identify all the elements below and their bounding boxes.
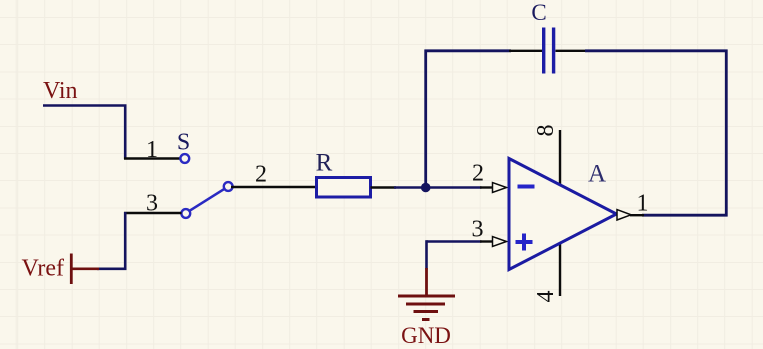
resistor R right lead bbox=[371, 186, 397, 188]
capacitor C right lead bbox=[556, 50, 588, 52]
wire node 2: switch common to resistor bbox=[231, 186, 317, 188]
op-amp output arrowhead (pin 1) bbox=[617, 210, 631, 220]
wire to switch pin 3 bbox=[124, 212, 182, 214]
wire GND vertical bbox=[425, 240, 428, 269]
wire resistor to junction bbox=[394, 186, 427, 189]
svg-text:A: A bbox=[588, 161, 606, 188]
svg-text:1: 1 bbox=[146, 137, 158, 163]
junction dot (node 2 at inverting input) bbox=[421, 183, 431, 193]
port Vref lead bbox=[71, 267, 99, 270]
op-amp pin 1 lead bbox=[630, 214, 644, 216]
wire to switch pin 1 bbox=[124, 157, 181, 159]
wire Vin horizontal bbox=[43, 104, 127, 107]
svg-text:2: 2 bbox=[472, 161, 484, 187]
wire junction to op-amp pin 2 bbox=[425, 186, 482, 189]
op-amp A body bbox=[509, 159, 617, 270]
op-amp non-inverting mark (plus) bbox=[516, 240, 533, 244]
capacitor C left plate bbox=[542, 28, 545, 74]
ground stem bbox=[425, 268, 428, 297]
svg-text:3: 3 bbox=[472, 217, 484, 243]
resistor R body bbox=[317, 178, 371, 198]
op-amp pin 8 (positive supply) bbox=[559, 130, 561, 186]
op-amp pin 2 lead bbox=[480, 186, 494, 188]
switch S pole (diagonal arm) bbox=[190, 189, 225, 211]
ground bar 2 bbox=[406, 303, 445, 306]
capacitor C left lead bbox=[509, 50, 542, 52]
port Vref bar bbox=[70, 254, 73, 285]
ground bar 1 bbox=[398, 295, 455, 298]
wire output to feedback corner bbox=[642, 214, 728, 217]
wire Vref vertical riser bbox=[124, 212, 127, 270]
svg-text:Vref: Vref bbox=[22, 256, 65, 282]
wire right vertical (feedback) bbox=[725, 50, 728, 217]
switch S pin 3 contact bbox=[181, 209, 190, 218]
op-amp inverting mark (minus) bbox=[518, 185, 535, 189]
switch S common contact bbox=[224, 182, 233, 191]
op-amp pin 2 arrowhead bbox=[493, 183, 507, 193]
capacitor C right plate bbox=[552, 28, 555, 74]
svg-text:S: S bbox=[177, 130, 190, 156]
svg-text:C: C bbox=[531, 0, 546, 25]
wire top-left horizontal to capacitor bbox=[425, 49, 512, 52]
ground bar 3 bbox=[414, 310, 439, 313]
svg-text:R: R bbox=[316, 150, 333, 177]
op-amp pin 3 lead bbox=[480, 240, 494, 242]
wire Vin vertical drop bbox=[124, 105, 127, 160]
switch S pin 1 contact bbox=[180, 154, 189, 163]
op-amp pin 4 (negative supply) bbox=[559, 242, 561, 296]
wire junction up to capacitor (left vertical) bbox=[424, 50, 427, 190]
svg-text:2: 2 bbox=[255, 162, 267, 188]
svg-text:GND: GND bbox=[401, 323, 451, 348]
ground bar 4 bbox=[422, 318, 430, 321]
op-amp pin 3 arrowhead bbox=[493, 237, 507, 247]
svg-text:4: 4 bbox=[533, 291, 559, 303]
wire GND corner to op-amp pin 3 bbox=[427, 240, 482, 243]
wire Vref horizontal bbox=[97, 267, 127, 270]
svg-text:1: 1 bbox=[637, 191, 649, 217]
wire capacitor to top-right corner bbox=[585, 49, 728, 52]
svg-text:8: 8 bbox=[533, 125, 559, 137]
svg-text:Vin: Vin bbox=[43, 78, 78, 104]
